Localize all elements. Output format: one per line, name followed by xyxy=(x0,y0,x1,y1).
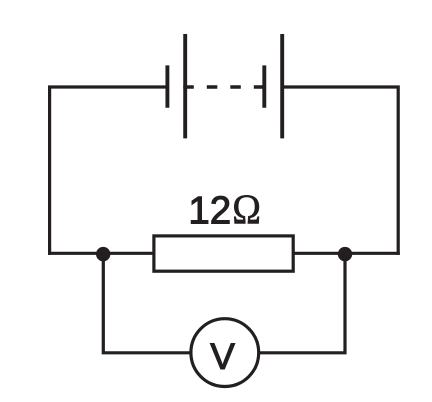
wire middle right segment xyxy=(292,252,400,255)
wire left drop to voltmeter xyxy=(103,254,190,353)
battery B1 short plate left cell xyxy=(165,65,169,107)
battery B1 dashed link xyxy=(183,85,264,88)
battery B1 long plate left cell xyxy=(183,34,187,138)
svg-text:V: V xyxy=(210,336,235,377)
node A junction dot left xyxy=(96,247,110,261)
wire middle left segment xyxy=(48,252,155,255)
wire top-right and right side xyxy=(282,87,398,255)
svg-text:Ω: Ω xyxy=(232,186,261,233)
resistor R1 body xyxy=(154,236,293,271)
svg-text:12: 12 xyxy=(188,190,231,233)
wire right drop to voltmeter xyxy=(260,254,345,353)
wire top-left and left side xyxy=(50,87,166,255)
battery B1 short plate right cell xyxy=(262,65,266,107)
node B junction dot right xyxy=(338,247,352,261)
voltmeter M1 body xyxy=(191,319,259,387)
battery B1 long plate right cell xyxy=(280,34,284,138)
